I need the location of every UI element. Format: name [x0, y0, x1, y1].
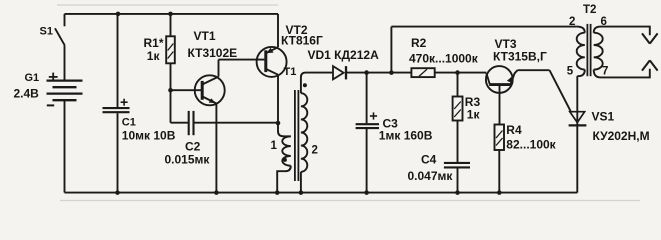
transistor VT2	[257, 14, 287, 123]
node bottom rail / C3	[364, 190, 369, 195]
svg-text:КТ315В,Г: КТ315В,Г	[493, 49, 547, 63]
transistor VT3	[486, 66, 518, 124]
transistor VT1	[195, 60, 225, 193]
node VT1 base / R1	[168, 88, 173, 93]
svg-text:VS1: VS1	[592, 109, 615, 123]
T1 winding 2 phase dot	[303, 83, 307, 87]
svg-text:C4: C4	[421, 152, 437, 166]
C1 plus sign	[121, 99, 128, 106]
output wire pin 6	[601, 27, 650, 36]
wire T1 winding 2 top to VD1	[301, 73, 333, 94]
output spark gap arrow top	[642, 33, 658, 43]
node bottom rail / C4	[455, 190, 460, 195]
svg-text:82...100к: 82...100к	[506, 138, 556, 152]
svg-text:R4: R4	[506, 123, 522, 137]
svg-text:10мк 10В: 10мк 10В	[122, 129, 176, 143]
wire bottom rail	[65, 192, 578, 194]
svg-text:КТ3102Е: КТ3102Е	[188, 46, 238, 60]
svg-text:2.4В: 2.4В	[14, 87, 40, 101]
thyristor VS1	[569, 76, 587, 193]
VT1 emitter arrow	[209, 98, 216, 103]
node plus rail / C3	[364, 70, 369, 75]
wire T1 winding 2 to bottom rail	[300, 172, 302, 193]
wire battery to bottom rail	[64, 100, 66, 192]
diode VD1	[333, 66, 346, 79]
T1 winding 1 phase dot	[283, 158, 287, 162]
svg-text:G1: G1	[25, 72, 40, 84]
battery plus sign	[49, 73, 58, 82]
transformer T2 secondary	[594, 27, 601, 33]
wire VD1 to R2	[346, 72, 412, 74]
svg-text:C2: C2	[185, 140, 201, 154]
output spark gap arrow bottom	[642, 60, 658, 70]
node plus rail / T2 feed	[389, 70, 394, 75]
capacitor C4	[444, 163, 470, 168]
svg-text:Т2: Т2	[583, 4, 596, 16]
wire T1 winding 1 to bottom rail	[277, 166, 291, 193]
svg-text:2: 2	[312, 144, 318, 156]
svg-text:1: 1	[271, 140, 278, 152]
wire VT3 emitter to VS1 gate	[518, 69, 550, 71]
svg-text:VT1: VT1	[194, 29, 216, 43]
capacitor C1 branch wires	[117, 14, 119, 107]
svg-text:7: 7	[602, 66, 608, 78]
C3 plus sign	[370, 112, 377, 119]
svg-text:Т1: Т1	[284, 66, 297, 78]
wire R2 to VT3	[435, 72, 487, 74]
node top rail / R1	[168, 12, 173, 17]
resistor R4	[495, 125, 505, 151]
svg-text:0.015мк: 0.015мк	[165, 153, 211, 167]
resistor R1	[170, 14, 172, 36]
transformer T1 winding 1	[282, 136, 291, 165]
node bottom rail / C1	[115, 190, 120, 195]
svg-text:1к: 1к	[467, 108, 481, 122]
svg-text:VD1 КД212А: VD1 КД212А	[308, 48, 380, 62]
T2 core	[587, 24, 590, 76]
svg-text:КУ202Н,М: КУ202Н,М	[593, 129, 650, 143]
capacitor C1 plates	[103, 108, 130, 112]
VT3 emitter arrow	[507, 76, 513, 84]
wire C2 to VT2 collector	[194, 122, 278, 124]
svg-text:5: 5	[567, 66, 574, 78]
wire node to T2 primary top	[390, 27, 392, 73]
svg-text:S1: S1	[40, 25, 53, 37]
transistor arrows	[209, 48, 514, 103]
T1 core	[295, 90, 299, 181]
svg-text:C1: C1	[122, 117, 136, 129]
battery minus sign	[47, 104, 54, 106]
transformer T1 winding 2	[301, 93, 307, 172]
faint scan streaks	[57, 5, 640, 201]
resistor R3 branch	[457, 73, 459, 97]
resistor R2	[411, 68, 434, 77]
svg-text:R2: R2	[411, 36, 427, 50]
node bottom rail / R4	[497, 190, 502, 195]
node VT2 collector / C2	[276, 121, 281, 126]
svg-text:0.047мк: 0.047мк	[408, 169, 454, 183]
svg-text:R1*: R1*	[144, 36, 164, 50]
switch S1	[55, 14, 65, 80]
node bottom rail / VT1 emitter	[214, 190, 219, 195]
node bottom rail / T1 winding 2	[299, 190, 304, 195]
node top rail / C1	[116, 12, 121, 17]
wire top rail	[65, 13, 279, 15]
svg-text:1к: 1к	[147, 49, 161, 63]
capacitor C2 plates	[189, 111, 194, 135]
svg-text:6: 6	[601, 16, 607, 28]
output wire pin 7	[601, 69, 650, 78]
svg-text:КТ816Г: КТ816Г	[281, 34, 323, 48]
svg-text:470к...1000к: 470к...1000к	[409, 52, 479, 66]
battery G1	[47, 81, 83, 101]
transformer T2 primary	[577, 27, 585, 33]
node bottom rail / T1 winding 1	[275, 190, 280, 195]
VT2 emitter arrow	[266, 48, 273, 53]
node base of VT1	[171, 89, 203, 91]
svg-text:1мк 160В: 1мк 160В	[379, 129, 433, 143]
capacitor C3 branch	[366, 73, 368, 124]
wire VT2 collector to T1 winding 1	[278, 123, 291, 136]
node plus rail / R3	[455, 70, 460, 75]
wire VT1 collector to VT2 base	[219, 59, 265, 61]
svg-text:2: 2	[569, 16, 575, 28]
